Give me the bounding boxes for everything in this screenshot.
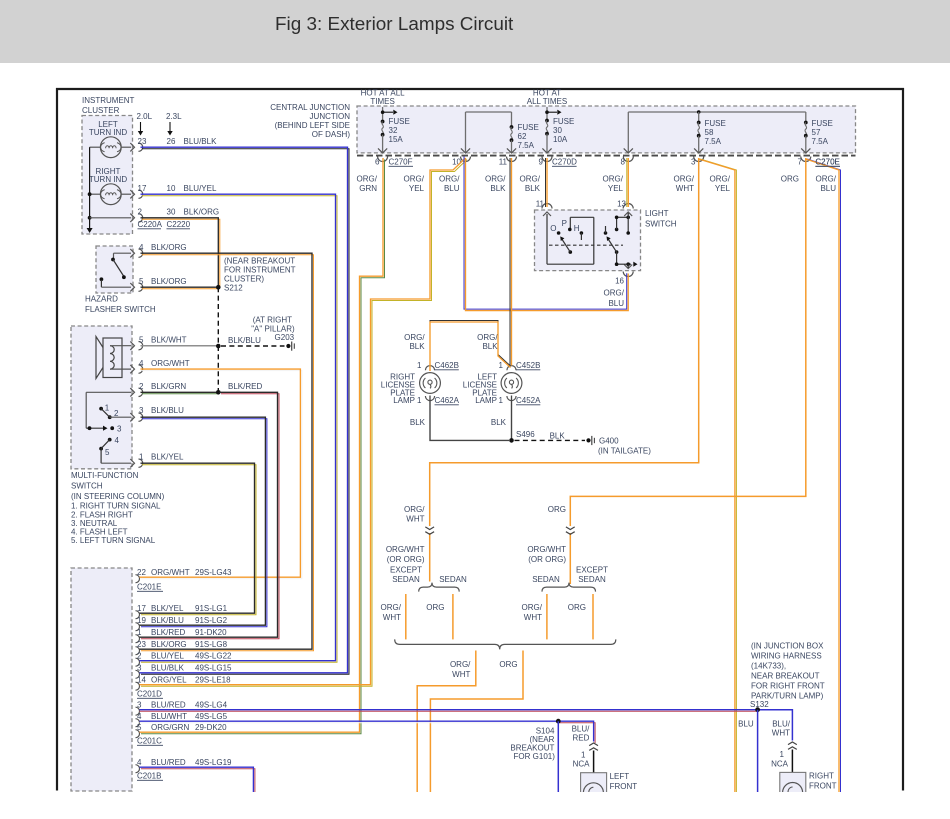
brace except-sedan/sedan left [419, 583, 460, 592]
svg-text:2.3L: 2.3L [166, 112, 182, 121]
ground G400 [586, 436, 651, 456]
wire BLU S104 down [557, 721, 559, 792]
svg-text:91-DK20: 91-DK20 [195, 628, 227, 637]
svg-text:1: 1 [417, 396, 422, 405]
svg-text:YEL: YEL [608, 184, 624, 193]
svg-text:LIGHT: LIGHT [645, 209, 669, 218]
wire BLU/YEL cluster pin 17 to C201D pin 2 [140, 194, 338, 662]
svg-text:TURN IND: TURN IND [89, 128, 127, 137]
connector pin 10 [452, 157, 470, 167]
svg-text:FLASHER SWITCH: FLASHER SWITCH [85, 305, 156, 314]
svg-text:2: 2 [137, 652, 142, 661]
svg-text:BLU/: BLU/ [572, 725, 591, 734]
central junction box (fuse box) [357, 106, 856, 156]
svg-text:C270F: C270F [389, 158, 413, 167]
svg-text:RIGHT: RIGHT [809, 772, 834, 781]
svg-text:49S-LG19: 49S-LG19 [195, 758, 232, 767]
mf pin 1 connector BLK/YEL [130, 453, 184, 468]
svg-text:BLU: BLU [738, 720, 754, 729]
wire right lamp lead [791, 750, 793, 773]
pin labels row 17/10 BLU/YEL [138, 184, 217, 193]
svg-text:1: 1 [417, 361, 422, 370]
label in junction box harness S132 [750, 642, 825, 709]
C201 pin 19 BLK/BLU 91S-LG2 [136, 616, 228, 631]
svg-text:WHT: WHT [383, 613, 401, 622]
light switch box [535, 209, 677, 271]
svg-text:LEFT: LEFT [610, 772, 630, 781]
svg-text:BLU: BLU [820, 184, 836, 193]
svg-text:15A: 15A [389, 135, 404, 144]
svg-text:ORG/: ORG/ [710, 175, 731, 184]
svg-text:BLK/YEL: BLK/YEL [151, 453, 184, 462]
svg-text:WHT: WHT [524, 613, 542, 622]
svg-text:ORG/YEL: ORG/YEL [151, 676, 187, 685]
svg-text:1: 1 [139, 453, 144, 462]
svg-text:S496: S496 [516, 430, 535, 439]
svg-text:EXCEPT: EXCEPT [390, 566, 422, 575]
svg-text:SEDAN: SEDAN [532, 575, 560, 584]
label EXCEPT SEDAN right [576, 566, 608, 585]
label BLU/RED left lamp [572, 725, 591, 743]
wire ORG/WHT C270E pin 3 to sedan brace [430, 158, 699, 582]
svg-text:14: 14 [137, 676, 146, 685]
central junction box label [270, 103, 350, 139]
svg-text:BLK/BLU: BLK/BLU [228, 336, 261, 345]
svg-text:2: 2 [138, 208, 143, 217]
connector names C220A C2220 [138, 220, 191, 229]
mf switch horn speaker symbol [96, 337, 131, 379]
svg-text:(IN JUNCTION BOX: (IN JUNCTION BOX [751, 642, 824, 651]
splice S496 [509, 430, 535, 443]
svg-text:30: 30 [167, 208, 176, 217]
svg-text:SWITCH: SWITCH [71, 482, 103, 491]
svg-text:29S-LG43: 29S-LG43 [195, 568, 232, 577]
svg-text:SWITCH: SWITCH [645, 220, 677, 229]
wire BLK/ORG hazard pin 4 to C201D pin 23 [140, 253, 314, 651]
svg-text:FUSE: FUSE [812, 119, 833, 128]
label ORG/WHT [674, 175, 695, 194]
C201 pin 2 BLU/YEL 49S-LG22 [136, 652, 233, 667]
svg-text:FUSE: FUSE [518, 123, 539, 132]
wire ORG/YEL C270E pin 3 jog to bottom [699, 159, 737, 792]
chevron NCA left lamp [573, 743, 598, 769]
wire ORG/YEL C270E pin 8 to light switch pin 13 [627, 158, 629, 207]
svg-text:C270D: C270D [552, 158, 577, 167]
svg-text:FOR INSTRUMENT: FOR INSTRUMENT [224, 266, 296, 275]
label ORG/BLU [439, 175, 460, 194]
wire ORG/BLK C270D pin 11 to left license lamp [510, 158, 512, 366]
svg-text:49S-LG22: 49S-LG22 [195, 652, 232, 661]
svg-text:O: O [550, 224, 556, 233]
wire BLU/WHT C201C pin 4 to splice S104 [140, 721, 559, 723]
svg-text:SEDAN: SEDAN [578, 575, 606, 584]
svg-text:91S-LG1: 91S-LG1 [195, 604, 228, 613]
wire BLU/RED C201B pin 4 down [140, 767, 255, 793]
svg-text:2: 2 [114, 409, 119, 418]
svg-text:26: 26 [167, 137, 176, 146]
svg-text:H: H [574, 224, 580, 233]
wire ORG/WHT sedan right [522, 594, 547, 639]
svg-text:4: 4 [139, 359, 144, 368]
wire BLK/RED junction to C201D pin 1 [140, 382, 280, 639]
svg-text:BLU/: BLU/ [772, 720, 791, 729]
label S104 near breakout [510, 727, 555, 762]
svg-text:7.5A: 7.5A [812, 137, 829, 146]
wire ORG sedan left [426, 594, 453, 639]
svg-text:BLK/BLU: BLK/BLU [151, 406, 184, 415]
svg-text:WHT: WHT [772, 729, 790, 738]
svg-text:19: 19 [137, 616, 146, 625]
svg-text:FUSE: FUSE [389, 117, 410, 126]
svg-text:17: 17 [137, 604, 146, 613]
multi-function switch label [71, 471, 165, 545]
hazard switch contacts [100, 253, 132, 287]
wire ORG/BLK branch to right license lamp [430, 321, 511, 368]
C201 connector block box [71, 568, 132, 791]
diagram frame border [56, 88, 904, 791]
hazard flasher switch box [85, 246, 156, 314]
mf pin 3 connector BLK/BLU [130, 406, 184, 421]
connector name C201C [137, 737, 163, 746]
right lamp BLK label [410, 418, 426, 427]
wire BLK/WHT mf pin 5 to junction [141, 344, 221, 349]
svg-text:BLK: BLK [491, 418, 507, 427]
label EXCEPT SEDAN left [390, 566, 422, 585]
svg-text:BLK: BLK [525, 184, 541, 193]
fuse 30 10A [542, 107, 574, 153]
brace sedan/except-sedan right [542, 583, 596, 592]
svg-text:(NEAR BREAKOUT: (NEAR BREAKOUT [224, 257, 295, 266]
svg-text:BLK: BLK [550, 432, 566, 441]
svg-text:LAMP: LAMP [393, 396, 415, 405]
wire BLK left lamp to splice S496 [511, 401, 513, 439]
C201 pin 4 BLU/WHT 49S-LG5 [136, 712, 228, 727]
C201 pin 14 ORG/YEL 29S-LE18 [136, 676, 232, 691]
svg-text:NCA: NCA [573, 760, 591, 769]
svg-text:BLK/ORG: BLK/ORG [151, 243, 187, 252]
svg-text:BLK: BLK [490, 184, 506, 193]
svg-text:YEL: YEL [715, 184, 731, 193]
svg-text:1: 1 [499, 396, 504, 405]
svg-text:NCA: NCA [771, 760, 789, 769]
svg-text:ORG/: ORG/ [604, 289, 625, 298]
big gathering brace [395, 639, 616, 649]
svg-text:MULTI-FUNCTION: MULTI-FUNCTION [71, 471, 139, 480]
svg-text:C201E: C201E [137, 583, 161, 592]
svg-text:G400: G400 [599, 437, 619, 446]
svg-text:7: 7 [798, 158, 803, 167]
svg-text:BLK/RED: BLK/RED [228, 382, 262, 391]
svg-text:ORG/: ORG/ [674, 175, 695, 184]
svg-text:ORG: ORG [548, 505, 566, 514]
wire BLK right lamp to splice S496 [430, 401, 509, 441]
svg-text:57: 57 [812, 128, 821, 137]
splice S132 [755, 707, 760, 712]
connector pin 8 [621, 157, 634, 167]
svg-text:WHT: WHT [676, 184, 694, 193]
wire BLK/BLU dashed to ground G203 [221, 336, 285, 346]
svg-text:49S-LG5: 49S-LG5 [195, 712, 228, 721]
wire S212 dashed run to BLK/GRN row [217, 287, 219, 392]
label ORG/GRN [357, 175, 378, 194]
svg-text:17: 17 [138, 184, 147, 193]
svg-text:29-DK20: 29-DK20 [195, 723, 227, 732]
2.3L column label with arrow [166, 112, 182, 136]
mf pin 4 connector ORG/WHT [130, 359, 189, 373]
wire ORG/BLU C270F pin 10 to light switch pin 16 [464, 157, 628, 311]
svg-text:C220A: C220A [138, 220, 163, 229]
light switch pin 11 entry [536, 200, 552, 217]
svg-text:CENTRAL JUNCTION: CENTRAL JUNCTION [270, 103, 350, 112]
svg-text:OF DASH): OF DASH) [312, 130, 351, 139]
svg-text:YEL: YEL [409, 184, 425, 193]
connector C270E pin 7 [798, 157, 840, 167]
svg-text:ORG/: ORG/ [520, 175, 541, 184]
svg-text:2.0L: 2.0L [137, 112, 153, 121]
svg-text:5: 5 [137, 723, 142, 732]
svg-text:(14K733),: (14K733), [751, 662, 786, 671]
connector name C201B [137, 772, 163, 781]
C201 pin 23 BLK/ORG 91S-LG8 [136, 640, 228, 655]
label ORG/YEL 2 [603, 175, 624, 194]
svg-text:TURN IND: TURN IND [89, 175, 127, 184]
wire ORG/BLK C270D pin 9 to light switch pin 11 [546, 158, 548, 207]
light switch pin 16 exit [604, 265, 634, 309]
wire ORG/GRN C270F pin 6 to C201C pin 5 [140, 158, 385, 734]
right feed bus wire [624, 112, 806, 153]
svg-text:(AT RIGHT: (AT RIGHT [253, 316, 292, 325]
svg-text:JUNCTION: JUNCTION [310, 112, 351, 121]
wire BLK/GRN mf pin 2 to junction [141, 390, 221, 395]
svg-text:(OR ORG): (OR ORG) [387, 555, 425, 564]
svg-text:49S-LG4: 49S-LG4 [195, 701, 228, 710]
connector C270F pin 6 [375, 157, 413, 167]
label near breakout for instrument cluster [224, 257, 296, 284]
svg-text:(OR ORG): (OR ORG) [528, 555, 566, 564]
svg-text:WHT: WHT [406, 515, 424, 524]
svg-text:1: 1 [105, 404, 110, 413]
C201 pin 22 ORG/WHT 29S-LG43 [136, 568, 233, 583]
svg-text:GRN: GRN [359, 184, 377, 193]
C201 pin 4 BLU/RED 49S-LG19 [136, 758, 233, 773]
chevron NCA right lamp [771, 742, 797, 769]
label ORG/BLK [485, 175, 506, 194]
svg-text:3: 3 [137, 701, 142, 710]
svg-text:ORG/: ORG/ [450, 660, 471, 669]
svg-text:23: 23 [137, 640, 146, 649]
svg-text:BLU/BLK: BLU/BLK [151, 664, 185, 673]
right front side marker lamp [780, 772, 837, 803]
wire BLU/RED C201D pin 3 to splice S132 [140, 710, 758, 712]
svg-text:C462B: C462B [435, 361, 459, 370]
multi-function switch box [71, 326, 132, 469]
svg-text:1: 1 [581, 751, 586, 760]
svg-text:22: 22 [137, 568, 146, 577]
wire ORG except sedan right [568, 594, 593, 639]
svg-text:2: 2 [139, 382, 144, 391]
svg-text:(IN TAILGATE): (IN TAILGATE) [598, 447, 651, 456]
svg-text:30: 30 [553, 126, 562, 135]
svg-text:WIRING HARNESS: WIRING HARNESS [751, 652, 822, 661]
cluster pin 17 connector [130, 190, 142, 198]
svg-text:BLU/YEL: BLU/YEL [184, 184, 217, 193]
svg-text:1: 1 [137, 628, 142, 637]
svg-text:ORG/: ORG/ [381, 603, 402, 612]
svg-text:ORG/: ORG/ [816, 175, 837, 184]
svg-text:C270E: C270E [815, 158, 839, 167]
svg-text:29S-LE18: 29S-LE18 [195, 676, 231, 685]
label ORG/BLK 2 [520, 175, 541, 194]
svg-text:CLUSTER: CLUSTER [82, 106, 120, 115]
wire left lamp lead [593, 751, 595, 773]
wire BLU/BLK cluster pin 23 to C201D pin 3 [140, 147, 350, 674]
svg-text:FOR RIGHT FRONT: FOR RIGHT FRONT [751, 682, 825, 691]
right turn indicator bulb [89, 167, 131, 205]
svg-text:5. LEFT TURN SIGNAL: 5. LEFT TURN SIGNAL [71, 536, 156, 545]
left lamp BLK label [491, 418, 507, 427]
svg-text:ORG: ORG [568, 603, 586, 612]
svg-text:HAZARD: HAZARD [85, 295, 118, 304]
left lamp ORG/BLK label [477, 333, 498, 351]
svg-text:ORG: ORG [426, 603, 444, 612]
svg-text:TIMES: TIMES [370, 97, 394, 106]
svg-text:ORG/WHT: ORG/WHT [386, 545, 425, 554]
connector pin 11 [499, 157, 517, 167]
svg-text:FOR G101): FOR G101) [514, 752, 556, 761]
label ORG/WHT (OR ORG) left [386, 545, 425, 564]
svg-text:FUSE: FUSE [553, 117, 574, 126]
svg-text:(BEHIND LEFT SIDE: (BEHIND LEFT SIDE [275, 121, 350, 130]
instrument cluster box [82, 96, 135, 234]
svg-text:EXCEPT: EXCEPT [576, 566, 608, 575]
svg-text:(IN STEERING COLUMN): (IN STEERING COLUMN) [71, 492, 165, 501]
svg-text:C452A: C452A [516, 396, 541, 405]
svg-text:BLK/ORG: BLK/ORG [151, 277, 187, 286]
label ORG [781, 175, 799, 184]
svg-text:BLU: BLU [608, 299, 624, 308]
svg-text:C452B: C452B [516, 361, 540, 370]
svg-text:Fig 3: Exterior Lamps Circuit: Fig 3: Exterior Lamps Circuit [275, 14, 514, 35]
wire ORG/WHT brace output to bottom [417, 651, 476, 793]
svg-text:WHT: WHT [452, 670, 470, 679]
svg-text:16: 16 [615, 277, 624, 286]
light switch mechanism [547, 213, 638, 268]
svg-text:ORG/WHT: ORG/WHT [151, 359, 190, 368]
svg-text:FRONT: FRONT [809, 782, 837, 791]
cluster pin 23 connector [130, 143, 142, 151]
svg-text:1: 1 [499, 361, 504, 370]
svg-text:BLU/YEL: BLU/YEL [151, 652, 184, 661]
splice S212 [216, 284, 243, 293]
svg-text:7.5A: 7.5A [705, 137, 722, 146]
svg-text:3: 3 [139, 406, 144, 415]
svg-text:BLK: BLK [482, 342, 498, 351]
C201 pin 5 ORG/GRN 29-DK20 [136, 723, 228, 738]
svg-text:1. RIGHT TURN SIGNAL: 1. RIGHT TURN SIGNAL [71, 502, 161, 511]
svg-text:11: 11 [499, 158, 508, 167]
svg-text:49S-LG15: 49S-LG15 [195, 664, 232, 673]
wire BLK/YEL mf pin 1 to C201D pin 17 [140, 463, 257, 615]
right license plate lamp [381, 361, 460, 405]
connector pin 3 [691, 157, 704, 167]
svg-text:G203: G203 [275, 333, 295, 342]
mf switch contact assembly [86, 392, 131, 463]
svg-text:4: 4 [137, 712, 142, 721]
svg-text:FUSE: FUSE [705, 119, 726, 128]
wire BLK dashed to ground G400 [515, 432, 586, 441]
svg-text:BLU: BLU [444, 184, 460, 193]
svg-text:91S-LG8: 91S-LG8 [195, 640, 228, 649]
svg-text:BLK/GRN: BLK/GRN [151, 382, 186, 391]
fuse 58 7.5A [694, 110, 726, 153]
svg-text:ORG/: ORG/ [603, 175, 624, 184]
C201 pin 3 BLU/BLK 49S-LG15 [136, 664, 233, 679]
wire BLU/RED S104 to left front lamp [558, 721, 595, 743]
svg-text:ORG/: ORG/ [404, 175, 425, 184]
mf pin 5 connector BLK/WHT [130, 336, 186, 350]
svg-text:7.5A: 7.5A [518, 141, 535, 150]
svg-text:C201D: C201D [137, 690, 162, 699]
C201 pin 1 BLK/RED 91-DK20 [136, 628, 228, 643]
svg-text:BLK/WHT: BLK/WHT [151, 336, 187, 345]
connector name C201D [137, 690, 163, 699]
svg-text:3: 3 [137, 664, 142, 673]
svg-text:INSTRUMENT: INSTRUMENT [82, 96, 135, 105]
hazard pin 5 connector [130, 277, 186, 291]
label ORG/YEL 3 [710, 175, 731, 194]
svg-text:10: 10 [167, 184, 176, 193]
svg-text:4: 4 [139, 243, 144, 252]
svg-text:58: 58 [705, 128, 714, 137]
svg-text:C201C: C201C [137, 737, 162, 746]
svg-text:5: 5 [139, 336, 144, 345]
svg-text:BLU/BLK: BLU/BLK [184, 137, 218, 146]
svg-text:ALL TIMES: ALL TIMES [527, 97, 567, 106]
svg-text:S212: S212 [224, 284, 243, 293]
wire ORG/WHT mf pin 4 to C201E pin 22 [140, 369, 302, 579]
splice S104 [556, 719, 561, 724]
pin labels row 2/30 BLK/ORG [138, 208, 220, 217]
svg-text:ORG: ORG [499, 660, 517, 669]
svg-text:9: 9 [539, 158, 544, 167]
svg-text:BLU/RED: BLU/RED [151, 701, 186, 710]
svg-text:P: P [562, 219, 567, 228]
C201 pin 17 BLK/YEL 91S-LG1 [136, 604, 228, 619]
label SEDAN left [439, 575, 467, 584]
svg-text:11: 11 [536, 200, 545, 209]
wire BLU/WHT S132 to right front lamp [758, 710, 793, 741]
svg-text:C2220: C2220 [167, 220, 191, 229]
connector C270E label repaint [815, 158, 840, 167]
svg-text:LAMP: LAMP [475, 396, 497, 405]
left front side marker lamp [581, 772, 638, 803]
svg-text:3: 3 [117, 424, 122, 433]
wire BLK/ORG hazard pin 5 to splice S212 [141, 287, 219, 289]
svg-text:SIDE: SIDE [809, 792, 828, 801]
svg-text:8: 8 [621, 158, 626, 167]
connector C270D pin 9 [539, 157, 578, 167]
svg-text:BLK/ORG: BLK/ORG [184, 208, 220, 217]
connector name C201E [137, 583, 163, 592]
svg-text:3: 3 [691, 158, 696, 167]
svg-text:ORG: ORG [781, 175, 799, 184]
light switch pin 13 entry [617, 200, 633, 217]
svg-text:91S-LG2: 91S-LG2 [195, 616, 228, 625]
left license plate lamp [463, 361, 541, 405]
svg-text:5: 5 [139, 277, 144, 286]
hot at all times label (mid) [527, 89, 567, 107]
svg-text:BLK/RED: BLK/RED [151, 628, 185, 637]
